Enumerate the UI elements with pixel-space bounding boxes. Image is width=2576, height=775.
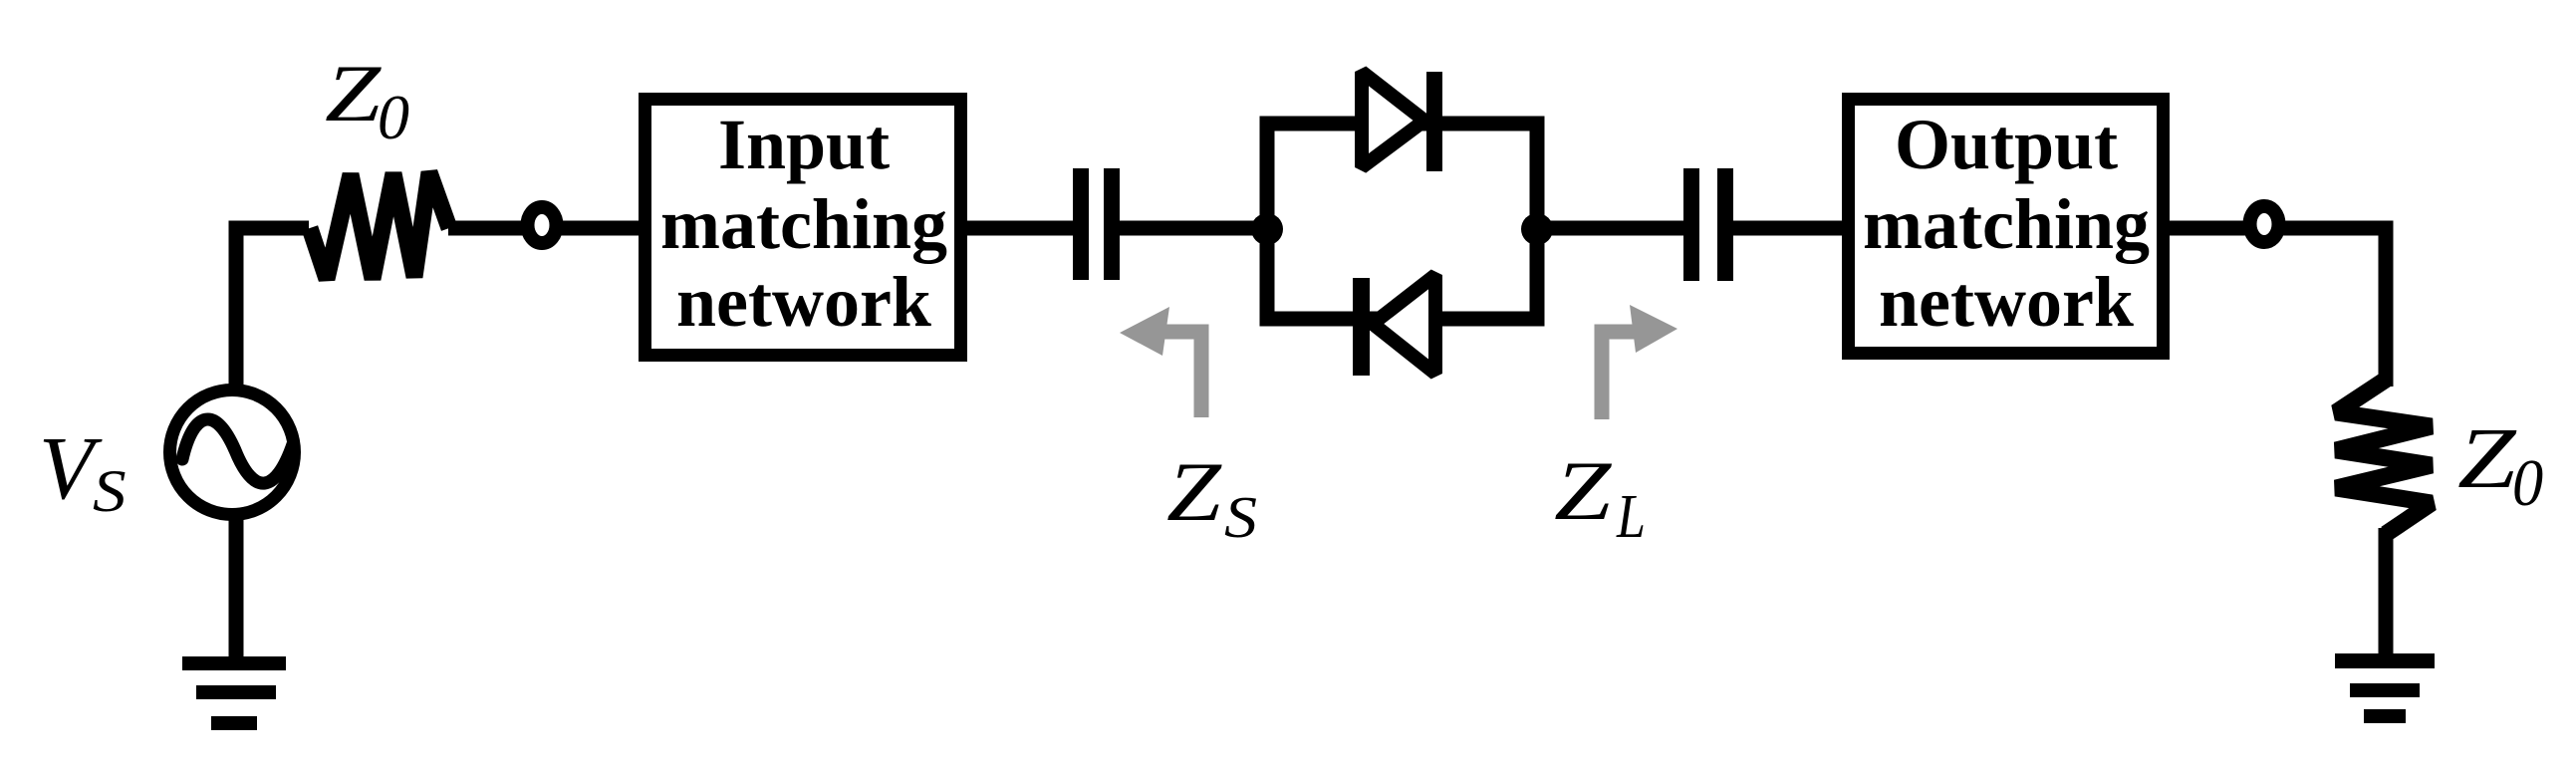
- svg-text:matching: matching: [1863, 184, 2150, 264]
- svg-text:Z: Z: [325, 48, 382, 138]
- svg-text:L: L: [1616, 483, 1646, 551]
- svg-text:network: network: [676, 262, 931, 342]
- svg-text:Output: Output: [1895, 105, 2118, 184]
- svg-text:S: S: [93, 457, 127, 524]
- svg-text:S: S: [1224, 484, 1257, 550]
- svg-text:matching: matching: [660, 184, 947, 264]
- svg-text:network: network: [1879, 262, 2134, 342]
- svg-text:Z: Z: [2457, 410, 2517, 506]
- svg-text:Input: Input: [718, 105, 890, 184]
- svg-text:0: 0: [378, 82, 409, 152]
- svg-text:Z: Z: [1554, 444, 1613, 538]
- svg-text:0: 0: [2512, 445, 2543, 520]
- svg-text:Z: Z: [1166, 444, 1222, 538]
